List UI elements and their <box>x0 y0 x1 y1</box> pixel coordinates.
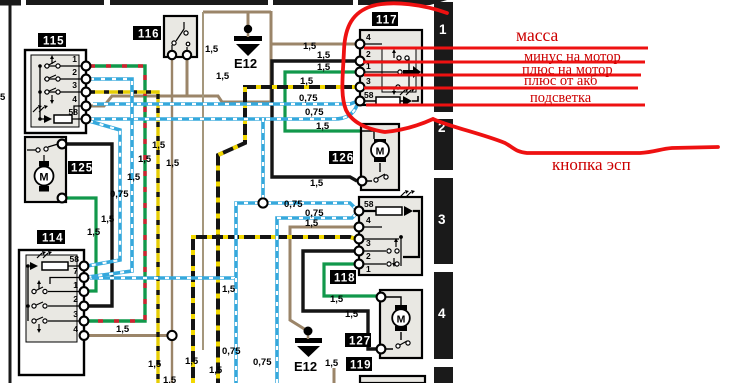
wire: blue branch to 117 pin58 second lead <box>90 105 357 119</box>
wire: brown ground bus (E12 top loop, 116 right pin, 115 pin4, 117 pin4) <box>86 11 357 106</box>
svg-text:114: 114 <box>42 233 64 245</box>
red annotation line: plus na motor <box>364 74 641 77</box>
svg-text:1: 1 <box>366 264 371 274</box>
svg-text:58: 58 <box>70 254 80 264</box>
svg-text:1: 1 <box>72 54 77 64</box>
red annotation line: plus ot akb <box>364 87 638 90</box>
red annotation text: podsvetka <box>530 90 592 106</box>
switch unit U116 <box>133 16 197 59</box>
svg-text:0,75: 0,75 <box>305 107 324 118</box>
svg-text:4: 4 <box>366 32 371 42</box>
svg-text:1,5: 1,5 <box>222 284 236 295</box>
red annotation line: massa <box>364 47 648 50</box>
svg-text:1,5: 1,5 <box>316 121 330 132</box>
red annotation line: minus na motor <box>363 61 645 64</box>
wire: blue vertical into junction node <box>261 118 265 199</box>
red annotation text: plus ot akb <box>524 73 597 89</box>
relay unit U118 <box>330 190 422 285</box>
svg-text:4: 4 <box>438 306 446 321</box>
right track bar segment 1 <box>434 2 453 112</box>
wire: blue junction node left to 114 pin7 and bottom edge <box>90 203 259 383</box>
svg-text:1,5: 1,5 <box>325 358 339 369</box>
svg-text:1,5: 1,5 <box>209 365 223 376</box>
svg-text:115: 115 <box>43 36 65 48</box>
diagram frame: top border bar segment 4 <box>273 0 353 5</box>
svg-text:117: 117 <box>376 15 398 27</box>
wire: brown thin vertical from top bus going down <box>202 12 204 350</box>
wire: green-red striped from 115 pin1 to 114 pin3 <box>88 66 145 321</box>
svg-text:116: 116 <box>138 29 160 41</box>
svg-text:1,5: 1,5 <box>127 172 141 183</box>
wire: black from 125 top pin to 114 pin2 <box>65 144 112 306</box>
svg-text:1,5: 1,5 <box>148 359 162 370</box>
svg-text:подсветка: подсветка <box>530 90 592 106</box>
diagram frame: top border bar segment 3 <box>110 0 268 5</box>
wire: blue 115 pin58 to 117 pin58 <box>93 101 358 104</box>
svg-text:1,5: 1,5 <box>305 218 319 229</box>
wire: black from 117 pin2 to 126 bottom pin <box>272 61 357 181</box>
diagram frame: top border bar segment 1 <box>0 0 21 6</box>
svg-text:3: 3 <box>72 80 77 90</box>
svg-text:126: 126 <box>332 153 354 165</box>
diagram frame: top border bar segment 5 <box>358 0 447 5</box>
relay unit U117 <box>356 12 422 106</box>
svg-text:плюс от акб: плюс от акб <box>524 73 597 89</box>
wire: green from 125 bottom pin to 114 pin1 <box>65 198 96 291</box>
wire: black from 118 pin2 to 127 bottom pin <box>303 251 377 349</box>
svg-text:1,5: 1,5 <box>300 76 314 87</box>
right track bar segment 2 <box>434 119 453 170</box>
svg-text:1,5: 1,5 <box>101 214 115 225</box>
right track bar segment 4 <box>434 272 453 359</box>
svg-text:1,5: 1,5 <box>317 50 331 61</box>
wire: black-yellow striped from 117 pin3 jog down to bottom edge <box>218 87 357 383</box>
svg-text:2: 2 <box>72 67 77 77</box>
red annotation curve around 117 with tail to knopka <box>342 3 718 153</box>
svg-text:0,75: 0,75 <box>284 199 303 210</box>
svg-text:E12: E12 <box>294 359 317 374</box>
wire: green from 117 pin1 to 126 top pin <box>285 72 362 131</box>
svg-text:3: 3 <box>366 238 371 248</box>
svg-text:2: 2 <box>73 294 78 304</box>
svg-text:7: 7 <box>73 266 78 276</box>
svg-text:1: 1 <box>439 22 447 37</box>
wire: blue from bottom edge to 118 pin58 second lead <box>277 213 357 383</box>
right track bar segment 5 <box>434 367 453 383</box>
svg-text:3: 3 <box>438 212 446 227</box>
wire: brown 118 pin4 to bottom ground E12 <box>290 227 356 330</box>
svg-text:1: 1 <box>73 280 78 290</box>
svg-text:3: 3 <box>366 76 371 86</box>
svg-text:1,5: 1,5 <box>138 154 152 165</box>
ground E12 bottom <box>294 327 322 375</box>
motor unit M127 <box>345 290 422 358</box>
svg-text:2: 2 <box>366 49 371 59</box>
switch unit U115 <box>25 33 90 133</box>
svg-text:кнопка эсп: кнопка эсп <box>552 155 631 174</box>
svg-text:58: 58 <box>364 90 374 100</box>
wire: brown from 116 left pin down to junction and bottom <box>171 57 173 383</box>
svg-text:M: M <box>376 146 385 158</box>
svg-text:1,5: 1,5 <box>317 62 331 73</box>
svg-text:58: 58 <box>364 199 374 209</box>
wire: blue junction node to 118 pin58 <box>267 203 357 210</box>
red annotation line: podsvetka <box>366 104 645 107</box>
diagram frame: left border line <box>9 0 12 383</box>
wire: brown 114 pin4 to junction node <box>86 334 168 337</box>
svg-text:1,5: 1,5 <box>166 158 180 169</box>
red annotation text: plus na motor <box>522 62 613 78</box>
ground E12 top <box>234 25 262 71</box>
svg-text:125: 125 <box>71 163 93 175</box>
svg-text:4: 4 <box>366 215 371 225</box>
motor unit M126 <box>329 124 399 190</box>
unit U119 label and box <box>346 357 425 383</box>
wire: brown stub bottom <box>333 368 336 383</box>
svg-text:1,5: 1,5 <box>216 71 230 82</box>
wire: yellow-black striped from 115 pin3 down to bottom edge <box>90 92 158 383</box>
svg-text:0,75: 0,75 <box>110 189 129 200</box>
diagram frame: top border bar segment 2 <box>26 0 104 5</box>
wire: blue 115 pin58 down to 114 pin58 <box>87 121 120 266</box>
junction node: open circle brown bus near 114 pin4 <box>167 331 176 340</box>
svg-text:5: 5 <box>0 92 6 103</box>
svg-text:1,5: 1,5 <box>185 356 199 367</box>
svg-text:2: 2 <box>366 251 371 261</box>
red annotation text: massa <box>516 25 558 45</box>
svg-text:M: M <box>39 172 48 184</box>
svg-text:127: 127 <box>349 336 371 348</box>
junction node: open circle blue bus <box>258 198 267 207</box>
svg-text:3: 3 <box>73 309 78 319</box>
svg-text:4: 4 <box>72 94 77 104</box>
svg-text:1,5: 1,5 <box>163 375 177 383</box>
svg-text:1,5: 1,5 <box>152 140 166 151</box>
right track bar segment 3 <box>434 178 453 264</box>
svg-text:0,75: 0,75 <box>222 346 241 357</box>
svg-text:1,5: 1,5 <box>303 41 317 52</box>
wire: black-yellow striped from bottom edge to 118 pin3 <box>193 237 356 383</box>
red annotation text: minus na motor <box>524 49 621 65</box>
svg-text:1,5: 1,5 <box>330 294 344 305</box>
wire size labels <box>0 41 359 383</box>
svg-text:1,5: 1,5 <box>116 324 130 335</box>
svg-text:E12: E12 <box>234 56 257 71</box>
svg-text:0,75: 0,75 <box>253 357 272 368</box>
wire: green from 118 pin1 to 127 top pin <box>324 264 377 296</box>
red annotation text: knopka esp <box>552 155 631 174</box>
svg-text:1,5: 1,5 <box>345 309 359 320</box>
svg-text:M: M <box>397 314 406 326</box>
motor unit M125 <box>25 137 93 202</box>
switch unit U114 <box>19 230 88 375</box>
svg-text:4: 4 <box>73 324 78 334</box>
wire: blue 115 pin2 down to 114 pin7 <box>88 79 132 277</box>
svg-text:118: 118 <box>334 273 356 285</box>
svg-text:1,5: 1,5 <box>310 178 324 189</box>
svg-text:58: 58 <box>69 107 79 117</box>
svg-text:119: 119 <box>350 360 372 372</box>
svg-text:1,5: 1,5 <box>87 227 101 238</box>
svg-text:масса: масса <box>516 25 558 45</box>
svg-text:0,75: 0,75 <box>299 93 318 104</box>
svg-text:1,5: 1,5 <box>205 44 219 55</box>
